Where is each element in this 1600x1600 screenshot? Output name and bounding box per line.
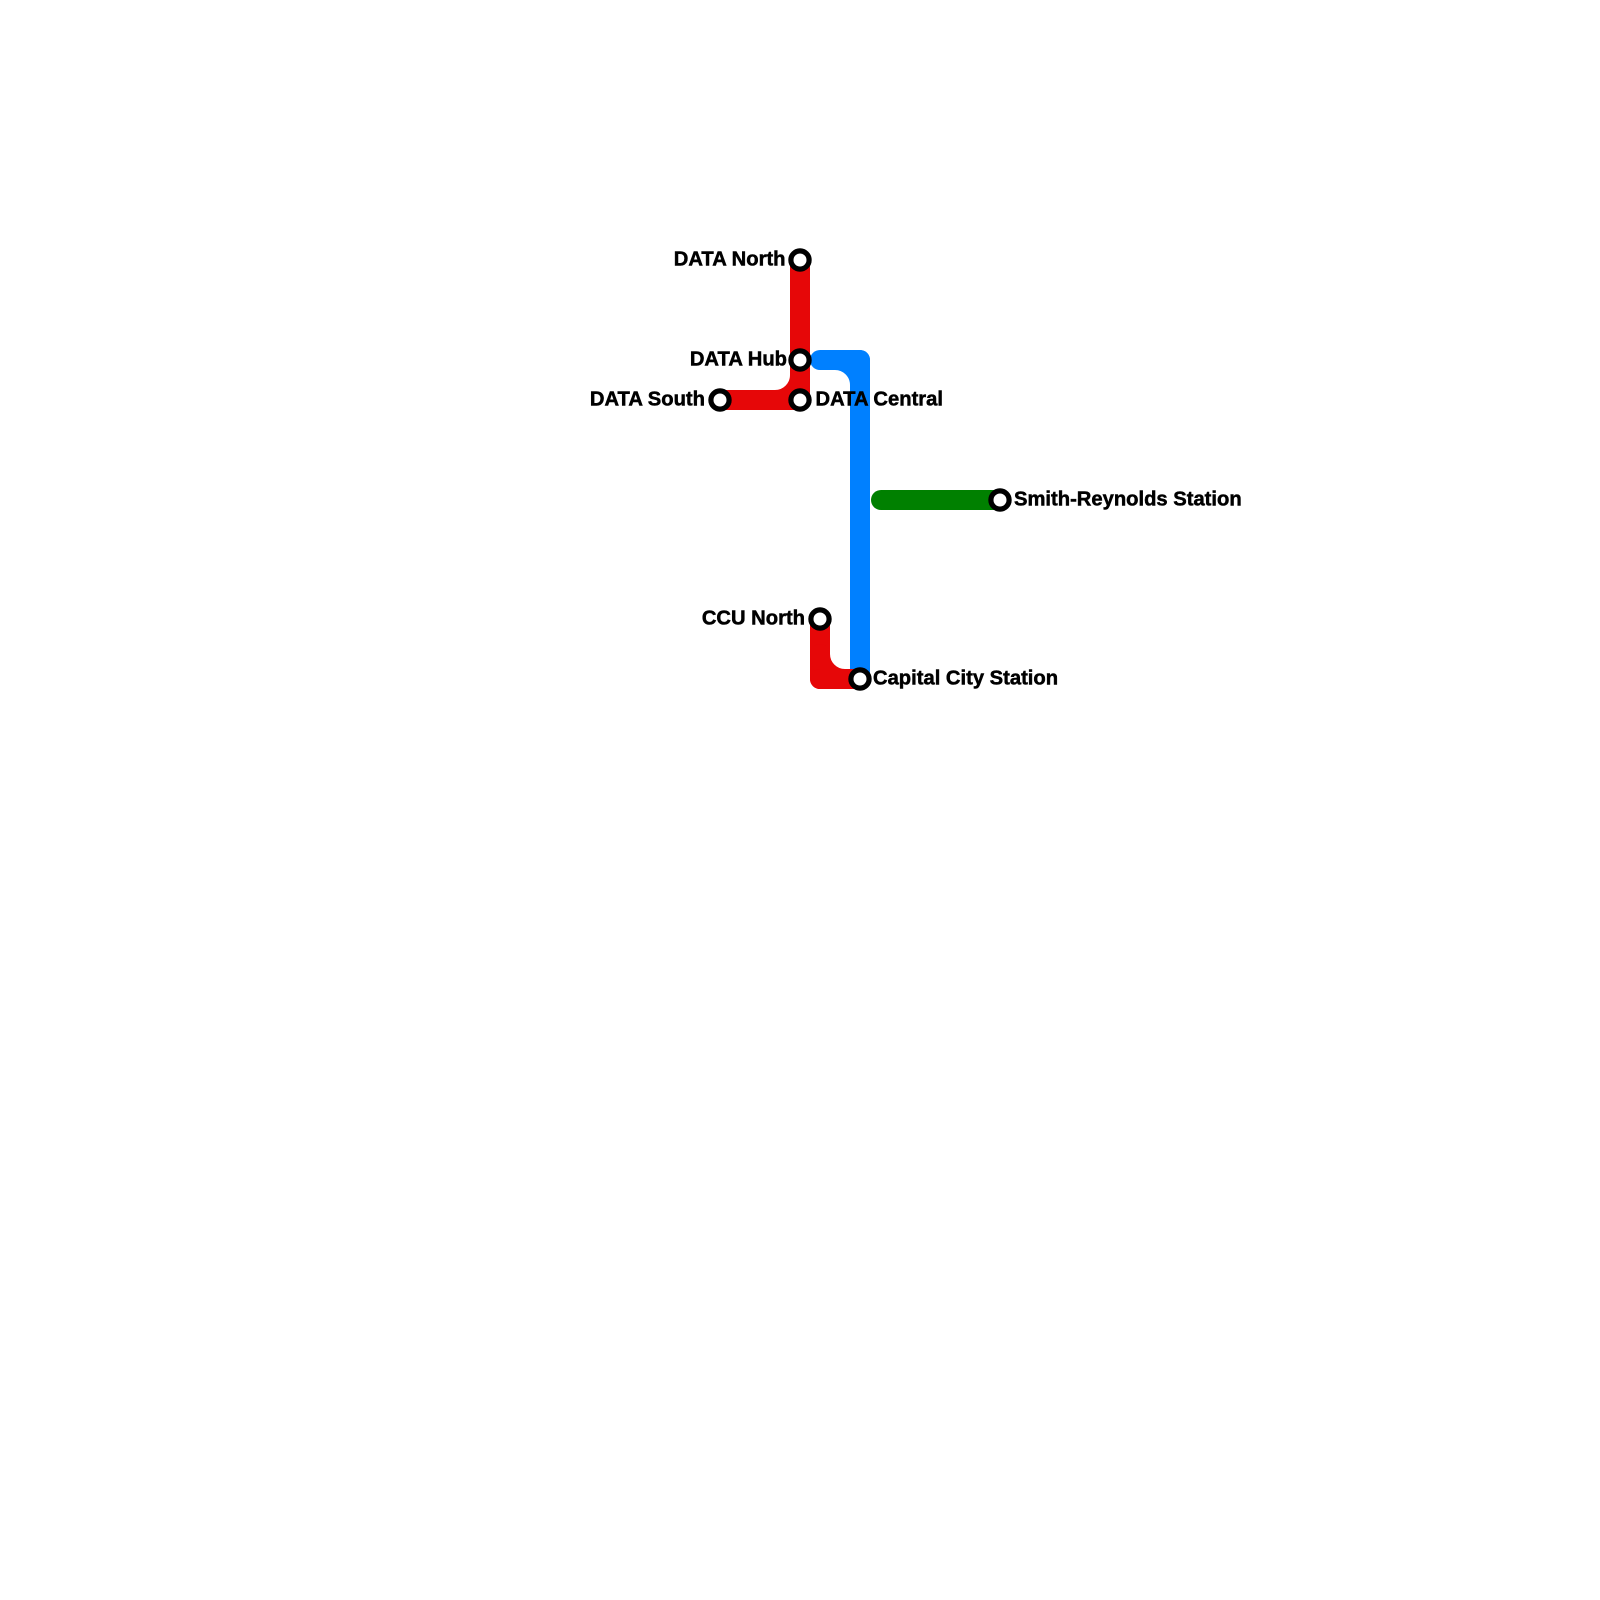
wire red line vertical DATA North to DATA Central <box>790 260 810 400</box>
node DATA Hub station <box>791 351 809 369</box>
wire red line segment CCU North downward <box>810 619 830 679</box>
node DATA South station <box>711 391 729 409</box>
svg-text:Capital City Station: Capital City Station <box>873 668 1058 690</box>
wire red line CCU corner arc <box>820 654 845 679</box>
wire red line segment to Capital City Station <box>820 669 860 689</box>
svg-text:DATA Hub: DATA Hub <box>690 349 787 371</box>
node DATA North station <box>791 251 809 269</box>
svg-text:DATA North: DATA North <box>674 249 786 271</box>
node CCU North station <box>811 610 829 628</box>
node DATA Central station <box>791 391 809 409</box>
node Capital City Station <box>851 670 869 688</box>
svg-text:DATA Central: DATA Central <box>816 389 943 411</box>
wire red line DATA South to DATA Central <box>720 390 800 410</box>
blue line segment down to Capital City Station <box>850 360 870 679</box>
svg-text:Smith-Reynolds Station: Smith-Reynolds Station <box>1014 489 1242 511</box>
node Smith-Reynolds Station <box>991 491 1009 509</box>
svg-text:DATA South: DATA South <box>590 389 705 411</box>
green line Smith-Reynolds branch <box>881 490 1000 510</box>
wire red line corner DATA Hub to DATA South <box>720 360 800 400</box>
svg-text:CCU North: CCU North <box>702 608 805 630</box>
blue line corner arc <box>835 360 860 385</box>
blue line segment DATA Hub eastward <box>820 350 860 370</box>
